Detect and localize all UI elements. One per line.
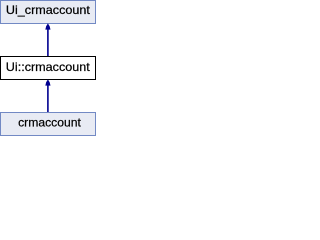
arrowhead 2 — [45, 79, 50, 85]
wire shaft 1 — [47, 30, 49, 57]
arrowhead 1 — [45, 23, 50, 29]
svg-text:Ui::crmaccount: Ui::crmaccount — [6, 60, 91, 74]
svg-text:crmaccount: crmaccount — [18, 116, 81, 130]
node crmaccount (derived class box) — [1, 113, 96, 136]
inheritance arrow 1 (Ui::crmaccount derives from Ui_crmaccount) — [45, 23, 50, 56]
node Ui_crmaccount (base class box) — [1, 1, 96, 24]
inheritance arrow 2 (crmaccount derives from Ui::crmaccount) — [45, 79, 50, 112]
wire shaft 2 — [47, 86, 49, 113]
node Ui::crmaccount (current class box) — [1, 57, 96, 80]
svg-text:Ui_crmaccount: Ui_crmaccount — [6, 3, 91, 17]
